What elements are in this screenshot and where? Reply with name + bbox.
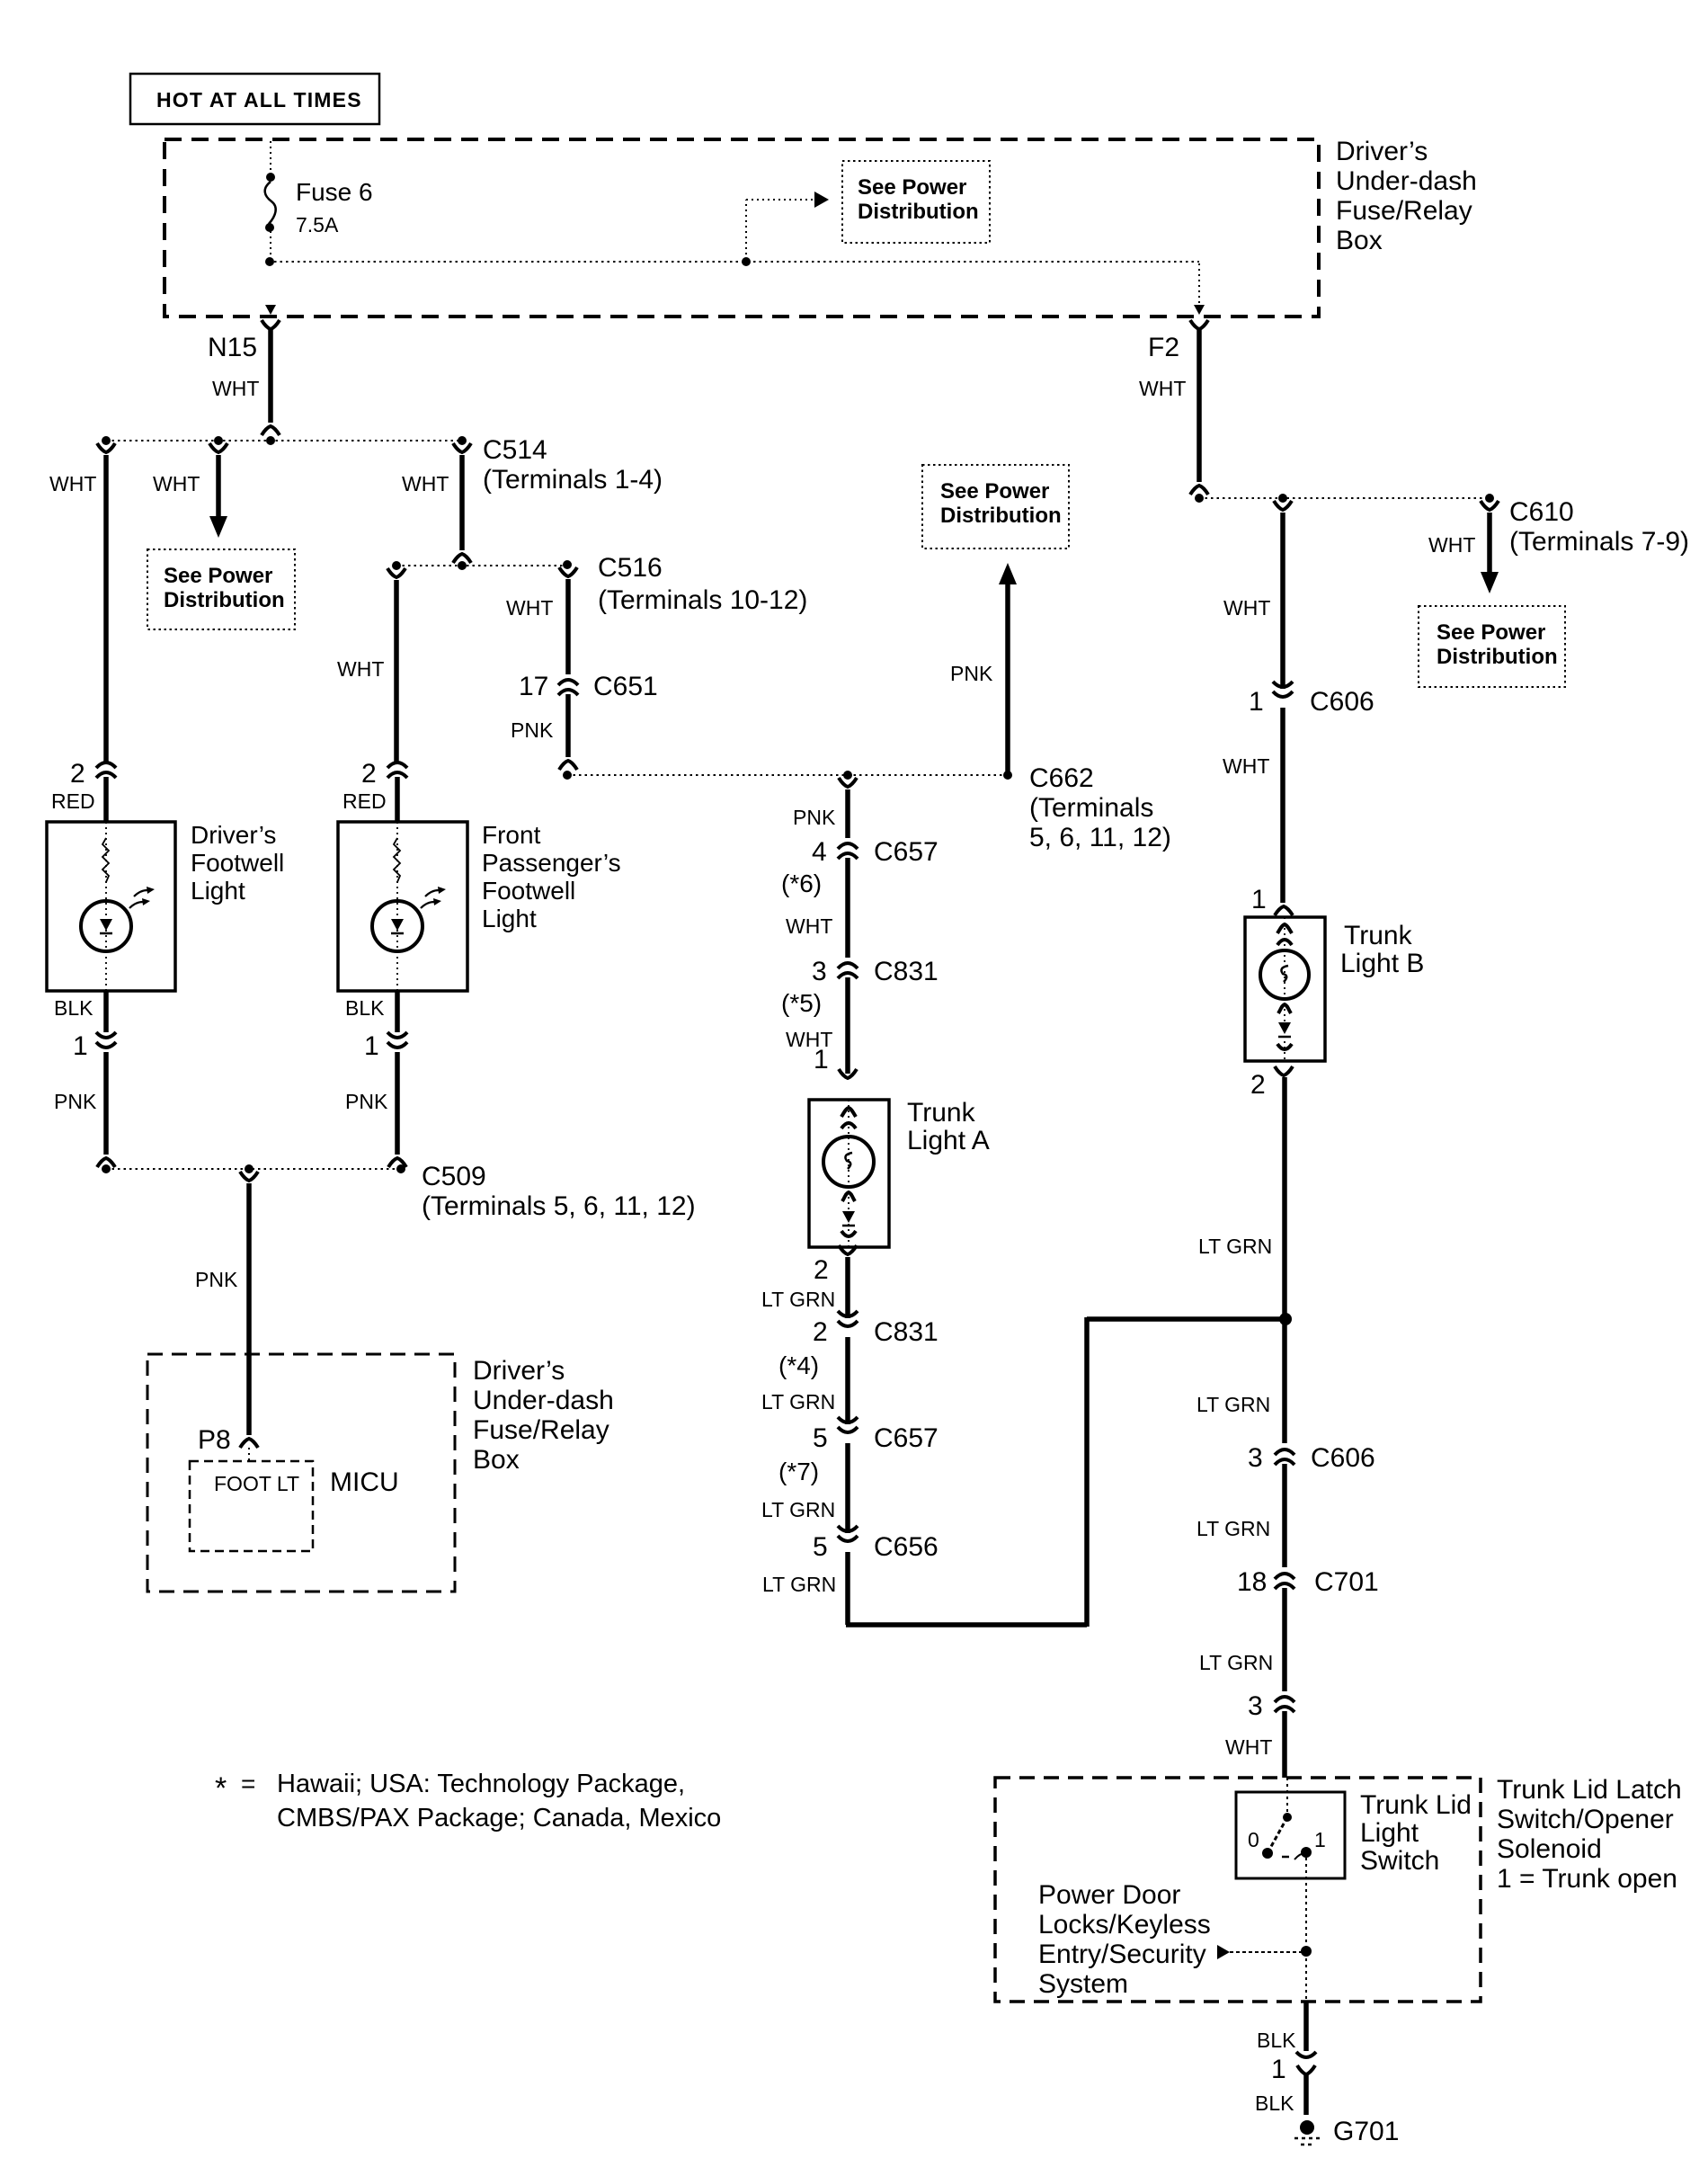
- ground G701 dot: [1300, 2120, 1314, 2135]
- connector fork above C509 row (driver): [97, 1158, 115, 1167]
- connector fork C514 top: [453, 443, 471, 452]
- wire LT GRN below C656: [845, 1552, 850, 1625]
- svg-text:2: 2: [813, 1317, 828, 1347]
- svg-text:4: 4: [812, 837, 827, 867]
- wire PNK below C651: [565, 694, 571, 757]
- connector chevrons pin 1 (passenger): [387, 1032, 407, 1038]
- wire WHT C610 arrow: [1487, 513, 1492, 574]
- wire dotted row C509: [106, 1168, 401, 1170]
- svg-text:C657: C657: [874, 1423, 939, 1453]
- svg-text:Trunk Lid Latch: Trunk Lid Latch: [1497, 1775, 1682, 1805]
- driver's under-dash fuse/relay box (MICU, dashed): [147, 1354, 455, 1592]
- svg-text:See Power: See Power: [164, 564, 272, 588]
- wire dotted branch row 1: [106, 440, 462, 441]
- resistor element (passenger footwell): [394, 838, 400, 882]
- lamp LED circle (passenger footwell): [372, 901, 423, 951]
- wire jog vertical riser: [1084, 1317, 1090, 1627]
- connector fork at trunk light B pin 2: [1275, 1066, 1293, 1075]
- svg-text:System: System: [1038, 1969, 1128, 1999]
- svg-text:(Terminals 5, 6, 11, 12): (Terminals 5, 6, 11, 12): [422, 1191, 696, 1221]
- wire WHT C606 to trunk light B: [1280, 708, 1285, 903]
- trunk lid light switch box: [1236, 1792, 1345, 1878]
- connector C701 pin 18 chevrons: [1275, 1574, 1294, 1579]
- node branch row1 arrow-branch: [214, 436, 223, 445]
- svg-text:PNK: PNK: [345, 1090, 388, 1113]
- svg-text:WHT: WHT: [1225, 1735, 1272, 1759]
- svg-text:WHT: WHT: [1223, 596, 1270, 620]
- diode trunk light B: [1278, 1022, 1291, 1034]
- trunk light B internal pin marks: [1277, 924, 1292, 933]
- svg-text:(Terminals 10-12): (Terminals 10-12): [598, 585, 807, 615]
- svg-text:1: 1: [814, 1045, 829, 1075]
- wire BLK to ground: [1303, 2074, 1309, 2115]
- connector fork (see power distribution drop): [209, 443, 227, 452]
- svg-text:C701: C701: [1314, 1567, 1379, 1597]
- trunk light B internal chevron bottom: [1277, 1044, 1292, 1049]
- FOOT LT box (dashed): [190, 1461, 313, 1551]
- connector fork below C509 row: [240, 1172, 258, 1181]
- driver's under-dash fuse/relay box (top, dashed): [165, 139, 1319, 317]
- wire jog top horizontal to junction: [1087, 1316, 1285, 1322]
- svg-text:Light: Light: [482, 905, 537, 932]
- wire dotted branch up to see power distribution: [745, 200, 747, 260]
- node C509 right: [396, 1164, 405, 1173]
- wire BLK below solenoid box: [1303, 2002, 1309, 2051]
- wire PNK to MICU: [246, 1183, 252, 1435]
- wire dotted branch row F2: [1199, 497, 1490, 499]
- svg-text:LT GRN: LT GRN: [761, 1288, 835, 1311]
- node C509 left: [102, 1164, 111, 1173]
- passenger footwell light box: [338, 822, 467, 991]
- wire PNK to C657: [845, 789, 850, 838]
- svg-text:Fuse/Relay: Fuse/Relay: [1336, 196, 1472, 226]
- svg-text:PNK: PNK: [511, 718, 554, 742]
- fuse F6 element: [265, 182, 276, 224]
- connector fork at branch row 1: [262, 426, 280, 435]
- wire WHT to see power distribution (left): [216, 455, 221, 518]
- svg-text:3: 3: [1248, 1443, 1263, 1473]
- connector fork at trunk light A pin 2: [839, 1245, 857, 1254]
- svg-text:WHT: WHT: [506, 596, 553, 620]
- switch contact small tail: [1294, 1853, 1305, 1859]
- svg-text:(*5): (*5): [781, 989, 822, 1017]
- svg-text:C831: C831: [874, 1317, 939, 1347]
- svg-text:1: 1: [73, 1031, 88, 1061]
- node bus junction to see-power-distribution: [742, 257, 751, 266]
- resistor element (driver footwell): [102, 838, 109, 882]
- node branch row2 C514: [458, 561, 467, 570]
- svg-text:PNK: PNK: [950, 662, 993, 685]
- trunk lid latch switch/opener solenoid box (dashed): [995, 1778, 1481, 2002]
- connector C657 pin 5 chevrons: [838, 1417, 858, 1422]
- trunk light A box: [809, 1100, 889, 1247]
- connector fork above C662 row: [559, 761, 577, 770]
- connector C651 pin 17 chevrons: [558, 680, 578, 685]
- see power distribution box (center): [922, 465, 1069, 548]
- svg-text:7.5A: 7.5A: [296, 213, 339, 236]
- connector C606 pin 1 chevrons: [1273, 682, 1293, 687]
- svg-text:(*7): (*7): [778, 1458, 819, 1485]
- svg-text:WHT: WHT: [153, 472, 200, 495]
- svg-text:WHT: WHT: [786, 914, 832, 938]
- wire WHT C831 to trunk light A: [845, 977, 850, 1074]
- wire LT GRN C657-C656: [845, 1443, 850, 1533]
- node junction with jog wire: [1279, 1313, 1292, 1325]
- svg-text:0: 0: [1248, 1828, 1259, 1851]
- svg-text:Light B: Light B: [1340, 949, 1424, 978]
- svg-text:N15: N15: [208, 333, 257, 362]
- svg-text:5: 5: [813, 1423, 828, 1453]
- svg-text:WHT: WHT: [1428, 533, 1475, 557]
- connector C606 pin 3 chevrons: [1275, 1449, 1294, 1455]
- svg-text:1 = Trunk open: 1 = Trunk open: [1497, 1864, 1677, 1894]
- trunk light A internal dotted line: [848, 1100, 850, 1247]
- node row554 right (C610): [1485, 494, 1494, 503]
- svg-text:3: 3: [812, 957, 827, 986]
- svg-text:Distribution: Distribution: [858, 200, 979, 224]
- svg-text:BLK: BLK: [345, 996, 385, 1020]
- svg-text:Front: Front: [482, 821, 541, 849]
- node power door link junction: [1301, 1946, 1312, 1957]
- svg-text:*: *: [215, 1771, 227, 1806]
- svg-text:Light: Light: [1360, 1818, 1419, 1848]
- svg-text:Power Door: Power Door: [1038, 1880, 1180, 1910]
- node row554 middle (trunk light B feed): [1278, 494, 1287, 503]
- svg-text:BLK: BLK: [54, 996, 93, 1020]
- svg-text:1: 1: [1251, 885, 1267, 914]
- svg-text:LT GRN: LT GRN: [1199, 1651, 1273, 1674]
- wire BLK below passenger footwell: [395, 991, 400, 1032]
- connector chevron pin 1 (ground wire): [1296, 2052, 1316, 2057]
- svg-text:LT GRN: LT GRN: [761, 1498, 835, 1521]
- svg-text:PNK: PNK: [195, 1268, 238, 1291]
- svg-text:See Power: See Power: [940, 479, 1049, 504]
- fuse F6 terminal dot top: [266, 173, 275, 182]
- wire WHT C516: [565, 579, 571, 674]
- LED emission arrows (passenger footwell): [421, 902, 434, 908]
- svg-text:2: 2: [814, 1255, 829, 1285]
- see power distribution box (top center): [842, 161, 990, 243]
- lamp trunk light A: [823, 1137, 874, 1187]
- wire WHT from F2: [1196, 329, 1202, 482]
- pin N15 connector (fork at fuse box): [262, 320, 280, 329]
- svg-text:FOOT LT: FOOT LT: [214, 1472, 299, 1495]
- svg-text:C662: C662: [1029, 763, 1094, 793]
- svg-text:Trunk: Trunk: [907, 1098, 976, 1128]
- svg-text:Box: Box: [1336, 226, 1383, 255]
- arrowhead at box edge (F2 drop): [1194, 305, 1205, 315]
- node branch row2 left (passenger feed): [392, 561, 401, 570]
- svg-text:WHT: WHT: [212, 377, 259, 400]
- node C509 middle: [245, 1164, 254, 1173]
- arrowhead at box edge (N15 drop): [265, 305, 276, 315]
- svg-text:Footwell: Footwell: [191, 849, 284, 877]
- see power distribution box (left): [147, 549, 295, 629]
- svg-text:WHT: WHT: [1139, 377, 1186, 400]
- wire stub P8 to FOOT LT: [248, 1448, 250, 1460]
- svg-text:Passenger’s: Passenger’s: [482, 849, 621, 877]
- svg-text:C657: C657: [874, 837, 939, 867]
- svg-text:RED: RED: [51, 789, 95, 813]
- svg-text:See Power: See Power: [1437, 620, 1545, 645]
- wire dotted bus drop to F2: [1198, 263, 1200, 304]
- connector fork at branch row F2: [1190, 486, 1208, 495]
- wire PNK riser to see power distribution: [1005, 584, 1010, 773]
- wire dotted into switch: [1286, 1778, 1288, 1813]
- connector fork at P8: [240, 1439, 258, 1448]
- LED triangle (driver footwell): [100, 919, 112, 931]
- wire dotted row C662: [567, 774, 1008, 776]
- svg-text:C831: C831: [874, 957, 939, 986]
- svg-text:LT GRN: LT GRN: [1198, 1235, 1272, 1258]
- arrow to see power distribution (top): [814, 192, 829, 208]
- svg-text:18: 18: [1237, 1567, 1267, 1597]
- connector fork C516 top: [559, 567, 577, 576]
- svg-text:RED: RED: [342, 789, 387, 813]
- connector fork passenger feed: [387, 568, 405, 577]
- arrow from power door system: [1217, 1945, 1230, 1959]
- trunk light B box: [1245, 917, 1325, 1061]
- svg-text:WHT: WHT: [402, 472, 449, 495]
- svg-text:Under-dash: Under-dash: [473, 1386, 614, 1415]
- passenger footwell internal dotted line: [396, 822, 398, 991]
- svg-text:Driver’s: Driver’s: [191, 821, 276, 849]
- svg-text:C516: C516: [598, 553, 663, 583]
- svg-text:C509: C509: [422, 1162, 486, 1191]
- connector C657 pin 4 chevrons: [838, 843, 858, 849]
- arrowhead up to see power distribution (center): [999, 563, 1017, 584]
- svg-text:PNK: PNK: [54, 1090, 97, 1113]
- connector fork at trunk light A pin 1: [839, 1069, 857, 1078]
- switch pivot dot: [1283, 1813, 1292, 1822]
- trunk light A internal pin marks: [841, 1108, 856, 1117]
- svg-text:LT GRN: LT GRN: [762, 1573, 836, 1596]
- svg-text:3: 3: [1248, 1691, 1263, 1721]
- svg-text:LT GRN: LT GRN: [761, 1390, 835, 1414]
- svg-text:Driver’s: Driver’s: [473, 1356, 565, 1386]
- svg-text:Entry/Security: Entry/Security: [1038, 1940, 1206, 1969]
- svg-text:Footwell: Footwell: [482, 877, 575, 905]
- switch dash between contacts: [1282, 1856, 1289, 1859]
- wire LT GRN C831-C657: [845, 1337, 850, 1424]
- wire dotted switch output: [1305, 1858, 1307, 2002]
- wire WHT passenger footwell feed: [394, 580, 399, 762]
- svg-text:LT GRN: LT GRN: [1196, 1517, 1270, 1540]
- svg-text:1: 1: [1314, 1828, 1326, 1851]
- connector fork C514 bottom: [453, 554, 471, 563]
- wire PNK below driver footwell: [103, 1052, 109, 1155]
- svg-text:Locks/Keyless: Locks/Keyless: [1038, 1910, 1211, 1940]
- svg-text:Fuse/Relay: Fuse/Relay: [473, 1415, 609, 1445]
- svg-text:WHT: WHT: [337, 657, 384, 681]
- svg-text:2: 2: [70, 759, 85, 789]
- svg-text:Light A: Light A: [907, 1126, 990, 1155]
- svg-text:2: 2: [1250, 1070, 1266, 1100]
- svg-text:Switch: Switch: [1360, 1846, 1439, 1876]
- driver footwell light box: [47, 822, 175, 991]
- arrowhead down to see power distribution (right): [1481, 572, 1499, 593]
- wire BLK below driver footwell: [103, 991, 109, 1032]
- node C662 row middle (trunk feed): [843, 771, 852, 780]
- wire WHT to C606: [1280, 513, 1285, 689]
- connector chevrons pin 1 (driver): [96, 1032, 116, 1038]
- wire jog bottom horizontal: [846, 1622, 1087, 1628]
- svg-text:(Terminals 1-4): (Terminals 1-4): [483, 465, 663, 495]
- LED triangle (passenger footwell): [391, 919, 404, 931]
- svg-text:Trunk Lid: Trunk Lid: [1360, 1790, 1472, 1820]
- svg-text:MICU: MICU: [330, 1467, 399, 1497]
- connector fork above C509 row (passenger): [388, 1158, 406, 1167]
- svg-text:WHT: WHT: [1223, 754, 1269, 778]
- node C662 row right (PNK riser): [1003, 771, 1012, 780]
- connector C831 pin 3 chevrons: [838, 963, 858, 968]
- connector fork (driver footwell feed): [97, 443, 115, 452]
- svg-text:BLK: BLK: [1255, 2091, 1294, 2115]
- connector fork trunk-B feed: [1274, 501, 1292, 510]
- wire WHT driver footwell feed: [103, 455, 109, 762]
- arrowhead down to see power distribution (left): [209, 516, 227, 538]
- wire dotted power door link: [1230, 1951, 1302, 1953]
- wire LT GRN C701 down: [1282, 1588, 1287, 1691]
- connector chevrons pin 2 (driver footwell): [96, 762, 116, 768]
- svg-text:BLK: BLK: [1257, 2029, 1296, 2052]
- svg-text:Solenoid: Solenoid: [1497, 1834, 1602, 1864]
- svg-text:Switch/Opener: Switch/Opener: [1497, 1805, 1674, 1834]
- svg-text:5: 5: [813, 1532, 828, 1562]
- svg-text:CMBS/PAX Package; Canada, Mexi: CMBS/PAX Package; Canada, Mexico: [277, 1804, 721, 1833]
- connector fork below C662 row: [839, 778, 857, 787]
- svg-text:2: 2: [361, 759, 377, 789]
- wire dotted bus inside fuse box: [274, 261, 1199, 263]
- wire RED into passenger footwell light: [395, 777, 400, 822]
- svg-text:C606: C606: [1310, 687, 1374, 717]
- svg-text:F2: F2: [1148, 333, 1179, 362]
- svg-text:C656: C656: [874, 1532, 939, 1562]
- switch contact 0 dot: [1262, 1848, 1273, 1859]
- svg-text:17: 17: [519, 672, 548, 701]
- wire LT GRN below trunk light A: [845, 1257, 850, 1318]
- fuse F6 terminal dot bottom: [265, 223, 274, 232]
- svg-text:(*6): (*6): [781, 870, 822, 897]
- driver footwell internal dotted line: [105, 822, 107, 991]
- wire WHT C657-C831: [845, 858, 850, 958]
- svg-text:1: 1: [1271, 2055, 1286, 2084]
- svg-text:LT GRN: LT GRN: [1196, 1393, 1270, 1416]
- LED emission arrows (driver footwell): [129, 902, 143, 908]
- wire fuse feed (dotted) into box: [270, 141, 271, 174]
- svg-text:See Power: See Power: [858, 175, 966, 200]
- wire LT GRN C606-C701: [1282, 1464, 1287, 1567]
- switch lever: [1268, 1817, 1287, 1851]
- node fuse output junction: [265, 257, 274, 266]
- connector C656 pin 5 chevrons: [838, 1526, 858, 1531]
- svg-text:C606: C606: [1311, 1443, 1375, 1473]
- node branch row1 C514: [458, 436, 467, 445]
- svg-text:G701: G701: [1333, 2117, 1399, 2146]
- pin F2 connector (fork at fuse box): [1190, 320, 1208, 329]
- svg-text:1: 1: [1249, 687, 1264, 717]
- node branch row1 left: [102, 436, 111, 445]
- svg-text:Distribution: Distribution: [164, 588, 285, 612]
- node N15 branch junction: [266, 436, 275, 445]
- svg-text:(*4): (*4): [778, 1351, 819, 1379]
- svg-text:(Terminals 7-9): (Terminals 7-9): [1509, 527, 1689, 557]
- svg-text:Under-dash: Under-dash: [1336, 166, 1477, 196]
- svg-text:1: 1: [364, 1031, 379, 1061]
- connector C831 pin 2 chevrons: [838, 1311, 858, 1316]
- svg-text:C610: C610: [1509, 497, 1574, 527]
- wire LT GRN below trunk light B: [1282, 1077, 1287, 1443]
- svg-text:(Terminals: (Terminals: [1029, 793, 1153, 823]
- wire dotted branch row 2: [396, 565, 568, 566]
- svg-text:Distribution: Distribution: [940, 504, 1062, 528]
- svg-text:Hawaii; USA: Technology Packag: Hawaii; USA: Technology Package,: [277, 1770, 685, 1798]
- svg-text:5, 6, 11, 12): 5, 6, 11, 12): [1029, 823, 1171, 852]
- trunk light B internal dotted line: [1284, 917, 1285, 1061]
- svg-text:Box: Box: [473, 1445, 520, 1475]
- svg-text:Trunk: Trunk: [1344, 921, 1413, 950]
- svg-text:WHT: WHT: [49, 472, 96, 495]
- wire PNK below passenger footwell: [395, 1052, 400, 1155]
- ground G701 hatching: [1294, 2137, 1320, 2140]
- svg-text:HOT AT ALL TIMES: HOT AT ALL TIMES: [156, 88, 362, 111]
- svg-text:Light: Light: [191, 877, 245, 905]
- connector chevrons pin 3 (trunk lid switch): [1275, 1697, 1294, 1702]
- svg-text:P8: P8: [198, 1425, 231, 1455]
- see power distribution box (right): [1419, 606, 1565, 687]
- node C662 row left: [563, 771, 572, 780]
- wire RED into driver footwell light: [103, 777, 109, 822]
- trunk light B internal fork below lamp: [1278, 1004, 1291, 1013]
- lamp LED circle (driver footwell): [81, 901, 131, 951]
- svg-text:C514: C514: [483, 435, 547, 465]
- trunk light A internal chevron bottom: [841, 1231, 856, 1236]
- label box HOT AT ALL TIMES: [130, 74, 379, 124]
- trunk light A internal fork below lamp: [842, 1192, 855, 1201]
- wire WHT to trunk lid switch: [1282, 1711, 1287, 1778]
- svg-text:=: =: [241, 1770, 255, 1797]
- svg-text:Fuse 6: Fuse 6: [296, 178, 373, 206]
- svg-text:C651: C651: [593, 672, 658, 701]
- svg-text:PNK: PNK: [793, 806, 836, 829]
- wire WHT C514: [459, 455, 465, 550]
- switch contact 1 dot: [1301, 1847, 1312, 1858]
- diode trunk light A: [842, 1211, 855, 1223]
- wire WHT from N15: [268, 329, 273, 423]
- node branch row2 right (C516): [563, 560, 572, 569]
- node F2 branch junction: [1195, 494, 1204, 503]
- svg-text:Distribution: Distribution: [1437, 645, 1558, 669]
- svg-text:Driver’s: Driver’s: [1336, 137, 1428, 166]
- connector fork C610: [1481, 501, 1499, 510]
- lamp trunk light B: [1260, 950, 1309, 999]
- wire fuse output (dotted) down to bus: [270, 231, 271, 260]
- connector fork at trunk light B pin 1: [1275, 906, 1293, 915]
- connector chevrons pin 2 (passenger footwell): [387, 762, 407, 768]
